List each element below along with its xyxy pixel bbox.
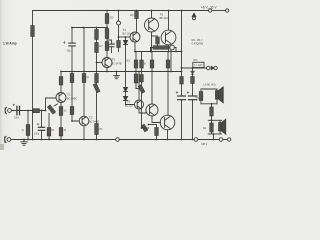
resistor x96 top	[95, 30, 99, 40]
wire: right vertical x181	[181, 11, 183, 77]
resistor R1 on left vertical	[31, 26, 35, 37]
svg-text:1000µ: 1000µ	[196, 99, 203, 101]
resistor x141 upper	[141, 52, 143, 61]
ground mid at x116	[116, 72, 118, 76]
resistor x106.5 third	[105, 42, 109, 51]
transistor T1	[56, 93, 66, 103]
resistor x167.5	[167, 52, 169, 61]
resistor x96 bottom	[95, 124, 99, 135]
transistor T3	[130, 32, 140, 42]
output terminal	[207, 66, 210, 69]
speaker LS1	[216, 89, 218, 91]
wire: T1 collector to bus	[60, 85, 62, 93]
resistor T7 base	[156, 37, 160, 44]
trimmer slanted input	[47, 105, 55, 114]
terminal: +V output circles top right	[209, 9, 212, 12]
resistor x96 below bus	[95, 74, 99, 83]
wire: base riser T1	[46, 98, 57, 111]
resistor x96 upper	[95, 43, 99, 53]
resistor x48.5 lower	[47, 128, 51, 137]
resistor T1 collector load	[59, 77, 63, 86]
resistor horizontal in input line	[33, 109, 40, 113]
resistor x141 lower	[140, 75, 144, 83]
paper background	[0, 0, 232, 150]
wire: speaker block 2 bottom	[208, 133, 221, 135]
resistor chain mid	[211, 104, 213, 107]
resistor R12 parallel LS1	[200, 89, 202, 92]
resistor x135.5	[135, 52, 137, 61]
resistor parallel LS2	[211, 120, 213, 123]
transistor T7	[168, 11, 170, 31]
svg-text:4Ω: 4Ω	[203, 127, 206, 130]
svg-text:0.47Ω/5W: 0.47Ω/5W	[192, 41, 204, 45]
svg-text:T6: T6	[127, 100, 131, 104]
wire: feedback bus y71	[61, 71, 182, 73]
capacitor big x181	[178, 95, 186, 97]
wire: sub rail y27	[72, 27, 107, 29]
svg-text:T3: T3	[112, 58, 116, 62]
plug symbol below rail	[192, 13, 195, 16]
speaker LS2	[219, 120, 221, 122]
input terminal	[8, 109, 12, 113]
capacitor C1	[16, 106, 18, 114]
wire: speaker block 1 top	[201, 88, 217, 90]
terminal mid bottom	[116, 138, 120, 142]
wire: left vertical branch	[32, 11, 34, 140]
wire: output tap x170.5	[170, 50, 172, 72]
transistor T2b	[102, 58, 112, 68]
wire: T3 base line	[119, 36, 131, 38]
wire: T2b base link	[97, 62, 103, 64]
diode chain x125	[125, 37, 127, 41]
resistor x181	[180, 77, 184, 85]
svg-text:100µ: 100µ	[34, 134, 40, 136]
svg-text:LS 8Ω (4Ω): LS 8Ω (4Ω)	[204, 83, 216, 86]
resistor x151.5	[151, 52, 153, 61]
wire: feedback cap branch x41	[41, 111, 43, 127]
wire: speaker block 1 bottom	[201, 103, 217, 105]
terminal bottom right rail	[194, 138, 198, 142]
resistor x156 bottom	[156, 125, 158, 128]
resistor x71.5 lower	[70, 107, 74, 115]
wire: branch x192	[192, 68, 194, 77]
wire: branch x48.5 lower	[48, 114, 50, 128]
transistor T4	[135, 100, 144, 109]
svg-text:10µ: 10µ	[67, 50, 72, 53]
resistor x192	[191, 77, 195, 84]
wire: top supply rail	[33, 10, 209, 12]
ground terminal bottom left	[7, 138, 11, 142]
resistor x118	[117, 41, 121, 48]
svg-text:BC 141: BC 141	[123, 33, 132, 36]
svg-text:T5: T5	[160, 13, 164, 17]
plus polarity marks	[13, 41, 189, 125]
transistor T2	[79, 116, 89, 126]
transistor T6	[146, 104, 158, 116]
wire: input line	[11, 110, 45, 112]
svg-text:MP 1: MP 1	[202, 143, 208, 146]
wire: emitter line y51	[135, 51, 182, 53]
wire: speaker block 2 top	[208, 119, 221, 121]
wire: x96 chain	[96, 28, 98, 30]
svg-text:T2: T2	[89, 116, 93, 120]
svg-text:BD 242: BD 242	[160, 17, 169, 20]
resistor x135.5 below bus	[135, 72, 137, 75]
trimmer bias slanted	[138, 85, 145, 94]
diode bias slanted	[141, 124, 147, 132]
capacitor big x192	[189, 95, 197, 97]
scan shadow bottom-left corner	[0, 144, 4, 150]
wire: to ground rail	[213, 134, 215, 140]
svg-text:BC 157: BC 157	[125, 105, 134, 108]
wire: bottom ground rail	[11, 139, 230, 141]
resistor x71.5 below bus	[70, 74, 74, 83]
inductor L1 output network	[193, 62, 204, 67]
wire: x83 branch	[83, 28, 85, 74]
svg-text:1 W Amp: 1 W Amp	[3, 42, 17, 46]
svg-text:BC 547B: BC 547B	[112, 63, 122, 66]
svg-text:T1: T1	[67, 93, 71, 97]
wire: bias divider drop x27.5	[27, 111, 29, 125]
resistor bias lower	[26, 125, 30, 136]
resistor x106.5 second	[105, 29, 109, 39]
capacitor electrolytic 10u	[69, 42, 75, 44]
transistor T8	[160, 115, 175, 130]
wire: T7 base link	[152, 35, 158, 37]
svg-text:T4: T4	[123, 28, 127, 32]
wire: x118 branch with lamp circle	[118, 11, 120, 22]
trimmer x96 slanted	[93, 83, 100, 93]
resistor T1 emitter lower	[59, 128, 63, 137]
ground small at x192	[191, 70, 195, 72]
terminal pair bottom right	[219, 138, 223, 142]
wire: output line	[182, 67, 207, 69]
wire: decoupling branch x71.5	[71, 28, 73, 43]
svg-text:BC 549C: BC 549C	[89, 121, 99, 124]
capacitor electrolytic x41	[38, 126, 44, 128]
svg-text:+6 V...30 V: +6 V...30 V	[201, 6, 217, 10]
ground symbol	[23, 140, 25, 142]
wire: T1 emitter chain	[60, 102, 62, 106]
transistor T5	[151, 11, 153, 19]
svg-text:100n: 100n	[14, 118, 20, 120]
resistor feed T3 collector	[136, 11, 138, 12]
resistor T1 emitter upper	[59, 107, 63, 116]
resistor x83 below bus	[82, 74, 86, 83]
capacitor small at x111	[107, 40, 112, 44]
svg-text:L = 2µH: L = 2µH	[194, 64, 203, 67]
resistor feed to sub rail	[106, 11, 108, 14]
resistor horizontal above y51	[153, 46, 169, 50]
svg-text:BC 549C: BC 549C	[67, 98, 77, 101]
